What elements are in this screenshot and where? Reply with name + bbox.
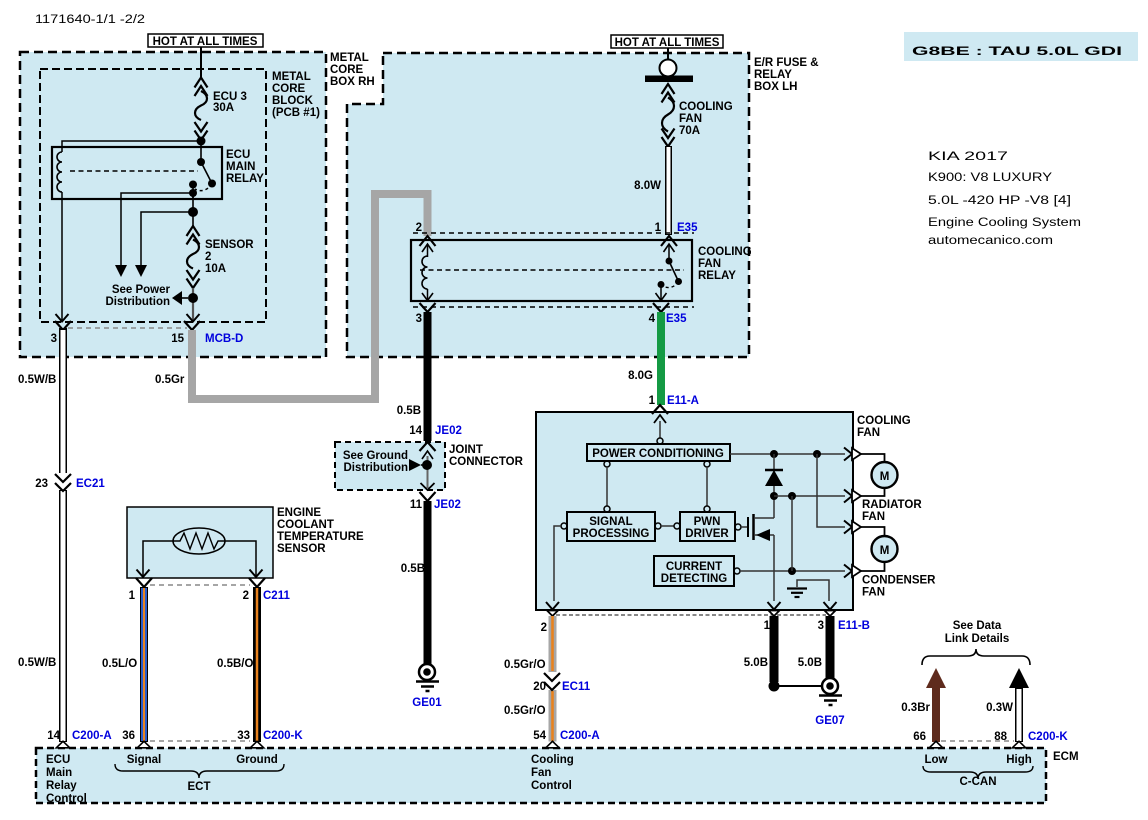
svg-text:1: 1	[649, 395, 656, 407]
wire node to GE07	[774, 685, 830, 687]
svg-text:Control: Control	[46, 793, 87, 805]
wire entry to power conditioning	[659, 421, 661, 438]
svg-text:1: 1	[655, 222, 662, 234]
wire right branch down	[817, 454, 845, 527]
svg-text:54: 54	[533, 730, 546, 742]
svg-text:C200-K: C200-K	[263, 730, 303, 742]
svg-text:Engine Cooling System: Engine Cooling System	[928, 217, 1081, 229]
module pin exit arrows	[546, 602, 559, 610]
HOT AT ALL TIMES box 2	[611, 35, 723, 48]
svg-text:DETECTING: DETECTING	[661, 573, 728, 585]
svg-text:Main: Main	[46, 767, 72, 779]
svg-text:E35: E35	[677, 222, 698, 234]
thermistor ellipse	[173, 528, 225, 554]
svg-text:COOLING: COOLING	[857, 415, 911, 427]
svg-text:2: 2	[541, 622, 547, 634]
arrow see power right	[135, 265, 147, 277]
svg-text:FAN: FAN	[679, 113, 702, 125]
svg-text:ECT: ECT	[188, 781, 211, 793]
motor condenser fan	[860, 527, 885, 536]
svg-text:COOLING: COOLING	[679, 101, 733, 113]
svg-text:C211: C211	[263, 590, 290, 602]
wire switch down to node	[192, 193, 194, 212]
pc right wire to arrows	[730, 453, 845, 455]
ground GE01	[419, 664, 435, 680]
svg-text:23: 23	[35, 478, 48, 490]
svg-text:M: M	[880, 545, 890, 557]
svg-text:Low: Low	[925, 754, 948, 766]
svg-text:C200-A: C200-A	[560, 730, 600, 742]
module entry caret E11-A	[652, 405, 668, 414]
svg-text:20: 20	[533, 681, 546, 693]
relay coil 2	[422, 256, 428, 289]
svg-text:FAN: FAN	[862, 587, 885, 599]
svg-text:0.5B/O: 0.5B/O	[217, 658, 253, 670]
bus bar	[645, 76, 693, 83]
box ECM	[36, 748, 1046, 803]
svg-text:E11-B: E11-B	[838, 620, 870, 632]
svg-text:14: 14	[409, 425, 422, 437]
relay switch	[200, 141, 202, 162]
node below relay	[188, 207, 198, 217]
svg-text:0.3Br: 0.3Br	[901, 702, 930, 714]
wire coil to pin 3	[61, 192, 63, 321]
svg-text:C200-K: C200-K	[1028, 731, 1068, 743]
block PWN DRIVER	[680, 512, 735, 541]
svg-text:10A: 10A	[205, 263, 226, 275]
block SIGNAL PROCESSING	[567, 512, 655, 541]
fuse COOLING FAN 70A	[662, 84, 675, 147]
svg-text:5.0B: 5.0B	[798, 657, 822, 669]
svg-text:See Data: See Data	[953, 620, 1002, 632]
wire 5.0B right	[826, 616, 835, 678]
svg-text:See Power: See Power	[112, 284, 171, 296]
pin 1 entry caret	[661, 236, 677, 246]
wire from HOT1 down	[200, 47, 202, 78]
svg-text:See Ground: See Ground	[343, 450, 408, 462]
svg-text:33: 33	[237, 730, 250, 742]
wire 8.0G green	[657, 312, 665, 405]
svg-text:EC11: EC11	[562, 681, 591, 693]
svg-text:GE01: GE01	[412, 697, 442, 709]
svg-text:5.0B: 5.0B	[744, 657, 768, 669]
svg-text:E35: E35	[666, 313, 687, 325]
relay connector E35 bottom dashed	[413, 306, 694, 308]
svg-text:0.5B: 0.5B	[397, 405, 421, 417]
svg-text:8.0G: 8.0G	[628, 370, 653, 382]
wire current detect line	[734, 568, 740, 574]
svg-text:METAL: METAL	[272, 71, 311, 83]
wire 0.5B relay to joint connector	[424, 312, 432, 441]
svg-text:0.5Gr: 0.5Gr	[155, 374, 185, 386]
svg-text:ENGINE: ENGINE	[277, 507, 321, 519]
svg-text:POWER CONDITIONING: POWER CONDITIONING	[592, 448, 724, 460]
wire junction to coil top	[62, 141, 201, 152]
fusible link circle	[660, 60, 677, 77]
wire 0.5B joint connector to GE01	[424, 501, 432, 665]
wire node to second arrow	[141, 212, 193, 265]
arrow left at node	[172, 291, 182, 305]
mosfet Q	[747, 517, 749, 537]
svg-text:66: 66	[913, 731, 926, 743]
HOT AT ALL TIMES box 1	[148, 34, 263, 47]
C211 dashed line	[150, 584, 250, 586]
block POWER CONDITIONING	[587, 444, 730, 461]
svg-text:RELAY: RELAY	[754, 69, 792, 81]
arrow see power left	[115, 265, 127, 277]
svg-text:M: M	[880, 471, 890, 483]
wire 0.5Gr gray	[192, 194, 428, 399]
brace up	[922, 649, 1030, 665]
ECM entry carets 36 33	[137, 741, 150, 748]
wire fuse2 to pin 15	[192, 288, 194, 321]
svg-text:RELAY: RELAY	[226, 173, 264, 185]
JE02 entry caret pin 14	[420, 442, 436, 451]
svg-text:0.5Gr/O: 0.5Gr/O	[504, 705, 546, 717]
relay mid dashed line	[70, 170, 198, 172]
svg-text:14: 14	[47, 730, 60, 742]
svg-text:15: 15	[171, 333, 184, 345]
output pins at module edge	[844, 448, 852, 578]
node see power distribution	[188, 293, 198, 303]
svg-text:2: 2	[416, 222, 422, 234]
svg-text:30A: 30A	[213, 102, 234, 114]
wire inside joint connector	[427, 456, 429, 488]
svg-text:GE07: GE07	[815, 715, 844, 727]
svg-text:HOT AT ALL TIMES: HOT AT ALL TIMES	[615, 37, 720, 49]
svg-text:8.0W: 8.0W	[634, 180, 661, 192]
svg-text:DRIVER: DRIVER	[685, 528, 729, 540]
svg-text:1: 1	[129, 590, 136, 602]
svg-text:Ground: Ground	[236, 754, 278, 766]
svg-text:2: 2	[243, 590, 249, 602]
svg-text:BOX LH: BOX LH	[754, 81, 797, 93]
box E/R FUSE & RELAY BOX LH	[347, 53, 749, 357]
pin 11 exit arrow	[421, 483, 435, 490]
svg-text:70A: 70A	[679, 125, 700, 137]
svg-text:SENSOR: SENSOR	[205, 239, 254, 251]
pin 3 exit arrow	[56, 314, 69, 322]
connector MCB-D dashed line	[68, 327, 187, 329]
svg-text:HOT AT ALL TIMES: HOT AT ALL TIMES	[153, 36, 258, 48]
svg-text:(PCB #1): (PCB #1)	[272, 107, 320, 119]
connector EC21 chevrons	[55, 473, 71, 490]
svg-text:2: 2	[205, 251, 211, 263]
pwn right circle to mosfet gate	[735, 524, 741, 530]
svg-text:FAN: FAN	[857, 427, 880, 439]
pin 3 exit arrow	[422, 293, 433, 301]
svg-text:High: High	[1006, 754, 1032, 766]
svg-text:CORE: CORE	[330, 64, 364, 76]
svg-text:ECU: ECU	[226, 149, 250, 161]
wire 0.5L/O blue-orange	[140, 587, 148, 742]
relay mid dashed	[420, 269, 684, 271]
svg-text:COOLANT: COOLANT	[277, 519, 334, 531]
sp-pwn wire	[655, 523, 661, 529]
relay connector E35 top dashed	[413, 232, 694, 234]
svg-text:C-CAN: C-CAN	[959, 776, 996, 788]
svg-text:0.5Gr/O: 0.5Gr/O	[504, 659, 546, 671]
pin 2 entry caret	[420, 236, 436, 246]
svg-text:4: 4	[649, 313, 656, 325]
wire 0.5B/O black-orange	[253, 587, 261, 742]
wire 0.5Gr/O pin2 to ECM	[549, 616, 557, 672]
node junction below fuse1	[197, 137, 206, 146]
wire 0.3Br	[926, 668, 946, 688]
svg-text:Relay: Relay	[46, 780, 77, 792]
box COOLING FAN module	[536, 412, 853, 610]
svg-text:RADIATOR: RADIATOR	[862, 499, 922, 511]
C200-K dashed line	[941, 740, 1014, 742]
svg-text:0.5L/O: 0.5L/O	[102, 658, 137, 670]
C211 pin carets	[136, 578, 152, 587]
sp left wire to pin 2	[561, 523, 567, 529]
svg-text:CORE: CORE	[272, 83, 306, 95]
node left 5.0B	[769, 681, 780, 692]
pin 15 exit arrow	[187, 314, 200, 322]
svg-text:C200-A: C200-A	[72, 730, 112, 742]
pc bottom circles and wires	[604, 461, 610, 467]
wire switch to left branch	[121, 193, 193, 265]
pin 14 ECM entry caret	[56, 741, 69, 748]
connector E11-B dashed	[556, 614, 826, 616]
svg-text:K900: V8 LUXURY: K900: V8 LUXURY	[928, 172, 1052, 184]
block CURRENT DETECTING	[654, 556, 734, 586]
svg-text:11: 11	[410, 499, 423, 511]
svg-text:0.5W/B: 0.5W/B	[18, 374, 56, 386]
svg-text:Distribution: Distribution	[343, 462, 408, 474]
svg-text:Control: Control	[531, 780, 572, 792]
svg-text:0.5B: 0.5B	[401, 563, 425, 575]
svg-text:5.0L -420 HP -V8 [4]: 5.0L -420 HP -V8 [4]	[928, 195, 1071, 207]
wire 5.0B left	[770, 616, 779, 682]
svg-text:JE02: JE02	[435, 425, 462, 437]
svg-text:CONDENSER: CONDENSER	[862, 575, 936, 587]
wire 8.0W white	[665, 146, 672, 235]
svg-text:EC21: EC21	[76, 478, 105, 490]
svg-text:KIA 2017: KIA 2017	[928, 151, 1008, 163]
motor radiator fan	[860, 454, 885, 462]
svg-text:36: 36	[122, 730, 135, 742]
svg-text:BLOCK: BLOCK	[272, 95, 314, 107]
ground inside module	[797, 580, 829, 601]
svg-text:TEMPERATURE: TEMPERATURE	[277, 531, 364, 543]
fuse ECU 3 30A	[195, 78, 208, 141]
svg-text:BOX RH: BOX RH	[330, 76, 375, 88]
svg-text:MCB-D: MCB-D	[205, 333, 243, 345]
svg-text:Distribution: Distribution	[105, 296, 170, 308]
svg-text:G8BE : TAU 5.0L GDI: G8BE : TAU 5.0L GDI	[912, 46, 1122, 58]
svg-text:Fan: Fan	[531, 767, 551, 779]
svg-text:RELAY: RELAY	[698, 270, 736, 282]
ECT wires inside	[143, 541, 173, 577]
svg-text:ECM: ECM	[1053, 751, 1079, 763]
svg-text:SIGNAL: SIGNAL	[589, 516, 632, 528]
svg-text:88: 88	[994, 731, 1007, 743]
svg-text:FAN: FAN	[698, 258, 721, 270]
svg-text:E11-A: E11-A	[667, 395, 699, 407]
svg-text:MAIN: MAIN	[226, 161, 255, 173]
wire from HOT2 down	[667, 48, 669, 62]
wire 0.5W/B white left	[59, 328, 67, 474]
relay 2 switch	[668, 244, 670, 261]
svg-text:0.5W/B: 0.5W/B	[18, 657, 56, 669]
svg-text:CONNECTOR: CONNECTOR	[449, 456, 524, 468]
svg-text:COOLING: COOLING	[698, 246, 752, 258]
box ENGINE COOLANT TEMPERATURE SENSOR	[127, 507, 273, 578]
wire 0.3W	[1009, 668, 1029, 688]
svg-text:1171640-1/1 -2/2: 1171640-1/1 -2/2	[35, 14, 145, 26]
svg-text:E/R FUSE &: E/R FUSE &	[754, 57, 819, 69]
relay box ECU MAIN RELAY	[52, 147, 222, 199]
svg-text:3: 3	[51, 333, 57, 345]
svg-text:3: 3	[416, 313, 422, 325]
node JE02	[422, 460, 432, 470]
ground GE07	[822, 678, 838, 694]
svg-text:ECU: ECU	[46, 754, 70, 766]
svg-text:Link Details: Link Details	[945, 633, 1010, 645]
box METAL CORE BOX RH	[20, 52, 326, 357]
svg-text:Cooling: Cooling	[531, 754, 574, 766]
box METAL CORE BLOCK (PCB #1)	[40, 69, 266, 322]
svg-text:PROCESSING: PROCESSING	[573, 528, 650, 540]
box JOINT CONNECTOR JE02	[335, 442, 445, 490]
svg-text:SENSOR: SENSOR	[277, 543, 326, 555]
svg-text:0.3W: 0.3W	[986, 702, 1013, 714]
pin 4 exit arrow	[656, 293, 667, 301]
header G8BE	[904, 32, 1138, 61]
svg-text:3: 3	[818, 620, 824, 632]
svg-text:Signal: Signal	[127, 754, 162, 766]
svg-text:automecanico.com: automecanico.com	[928, 235, 1053, 247]
svg-text:FAN: FAN	[862, 511, 885, 523]
svg-text:JOINT: JOINT	[449, 444, 483, 456]
connector EC11 chevrons	[544, 673, 560, 681]
svg-text:CURRENT: CURRENT	[666, 561, 722, 573]
fuse SENSOR 2 10A	[187, 226, 200, 288]
relay box COOLING FAN RELAY	[411, 240, 692, 301]
relay coil	[57, 152, 62, 192]
svg-text:JE02: JE02	[434, 499, 461, 511]
diode D	[773, 454, 775, 496]
node below diode	[770, 492, 778, 500]
svg-text:PWN: PWN	[694, 516, 721, 528]
C200 dashed line	[150, 740, 250, 742]
svg-text:METAL: METAL	[330, 52, 369, 64]
